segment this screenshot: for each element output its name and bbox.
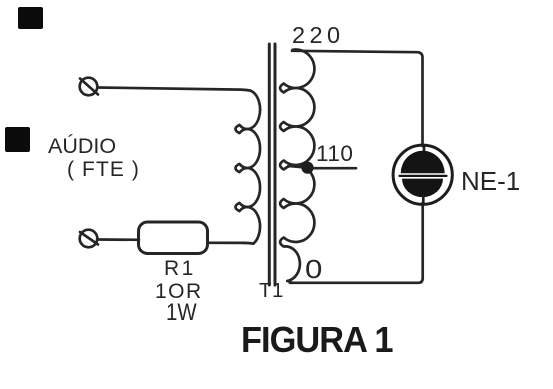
label 220 [292, 22, 344, 49]
terminal J2 (audio input bottom) [80, 230, 98, 248]
transformer T1 secondary winding [280, 50, 314, 283]
scan artifact square top-left [18, 7, 43, 29]
label 110 [316, 141, 353, 167]
wire: secondary top (220 tap) to lamp [292, 51, 423, 146]
terminal J1 (audio input top) [80, 78, 98, 96]
wire: 110V tap stub [312, 167, 356, 170]
wire: resistor to primary bottom [208, 241, 246, 244]
junction dot: 110V tap [301, 162, 313, 174]
label R1 [164, 257, 196, 281]
wire: top terminal to transformer primary top [98, 88, 251, 91]
label 1W [166, 299, 197, 327]
wire: tap connector [288, 166, 307, 168]
caption FIGURA 1 [241, 319, 393, 361]
resistor R1 body [139, 222, 208, 254]
wire: lamp bottom to secondary bottom (0 tap) [290, 203, 423, 283]
label T1 [259, 279, 284, 303]
label (FTE) [67, 158, 140, 182]
transformer core lines [268, 44, 271, 285]
scan artifact square left [5, 127, 30, 152]
label NE-1 [461, 166, 520, 197]
wire: bottom terminal to resistor [98, 238, 139, 241]
label 10R [155, 280, 203, 304]
label 0 [305, 254, 322, 285]
transformer T1 primary winding [235, 91, 260, 244]
label AUDIO [48, 134, 116, 159]
neon lamp NE-1 [393, 145, 452, 204]
